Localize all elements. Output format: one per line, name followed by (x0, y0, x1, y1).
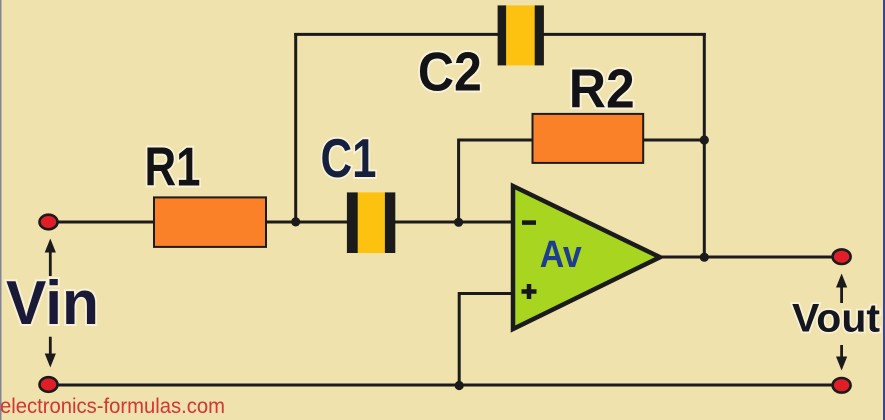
capacitor C2 (dielectric body) (503, 5, 537, 65)
capacitor C1 (dielectric body) (355, 192, 387, 253)
wire: vertical riser from inverting node B up to R2 branch (457, 139, 460, 224)
junction: ground rail / non-inverting drop (455, 381, 464, 390)
resistor R1 (body) (154, 197, 266, 247)
terminal: Vin bottom (red) (40, 377, 58, 392)
wire: top feedback branch (horizontal, through C2) (294, 33, 706, 36)
svg-text:C2: C2 (418, 41, 482, 103)
svg-text:Vin: Vin (6, 269, 99, 338)
terminal: Vin top (red) (40, 215, 58, 230)
junction: R2 right to feedback bus (700, 135, 709, 144)
svg-text:Av: Av (540, 234, 582, 276)
capacitor C2 left plate (498, 5, 507, 65)
arrow: Vout upper (pointing up) (836, 274, 847, 304)
svg-text:R2: R2 (569, 58, 635, 120)
wire: non-inverting input stub (horizontal) (459, 292, 513, 295)
op-amp inverting pin mark (-) (522, 220, 536, 225)
junction node A (R1 / C1 / top branch) (291, 217, 300, 226)
capacitor C2 right plate (535, 5, 544, 65)
terminal: Vout top (red) (833, 249, 851, 264)
junction node B (inverting input node) (454, 218, 463, 227)
svg-text:Vout: Vout (792, 297, 880, 341)
svg-text:C1: C1 (321, 127, 377, 189)
op-amp non-inverting pin mark (+) (522, 284, 537, 299)
wire: bottom ground rail (48, 384, 842, 387)
wire: output line (op-amp output to Vout terminal) (657, 256, 842, 259)
arrow: Vout lower (pointing down) (836, 345, 847, 371)
arrow: Vin lower (pointing down) (45, 337, 56, 368)
capacitor C1 left plate (347, 192, 358, 253)
svg-text:electronics-formulas.com: electronics-formulas.com (0, 394, 225, 418)
junction: feedback bus to output line (700, 253, 709, 262)
wire: R2 feedback branch (horizontal, through R2) (459, 139, 705, 142)
resistor R2 (body) (533, 114, 644, 163)
op-amp U1 (triangle body) (513, 186, 660, 329)
arrow: Vin upper (pointing up) (45, 239, 56, 277)
wire: main input line (Vin to op-amp inverting input, through R1 and C1) (48, 221, 513, 224)
svg-text:R1: R1 (145, 136, 201, 198)
capacitor C1 right plate (385, 192, 395, 253)
wire: right vertical feedback bus (C2/R2 down to output line) (703, 33, 706, 257)
terminal: Vout bottom (red) (833, 378, 851, 393)
wire: left vertical riser from node A up to C2 branch (294, 33, 297, 222)
wire: non-inverting input drop to ground rail (vertical) (458, 292, 461, 386)
